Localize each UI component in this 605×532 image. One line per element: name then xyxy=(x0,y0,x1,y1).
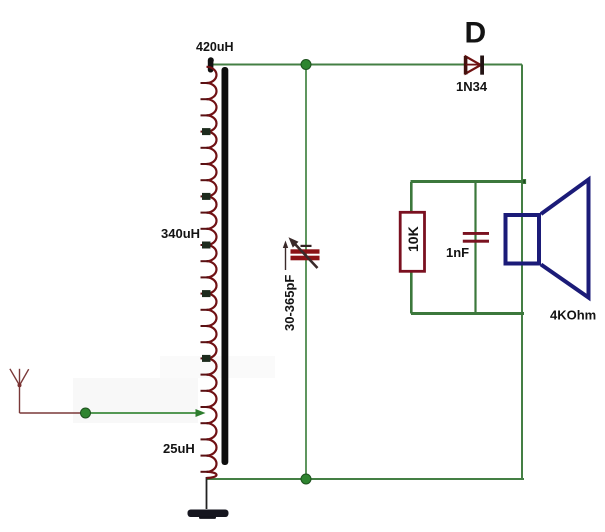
svg-text:D: D xyxy=(465,17,487,50)
svg-text:25uH: 25uH xyxy=(163,441,195,456)
svg-text:1N34: 1N34 xyxy=(456,79,488,94)
svg-text:30-365pF: 30-365pF xyxy=(282,275,297,331)
svg-text:4KOhm: 4KOhm xyxy=(550,308,596,323)
svg-text:340uH: 340uH xyxy=(161,226,200,241)
svg-text:420uH: 420uH xyxy=(196,40,234,54)
svg-text:1nF: 1nF xyxy=(446,245,469,260)
svg-text:10K: 10K xyxy=(405,226,421,252)
